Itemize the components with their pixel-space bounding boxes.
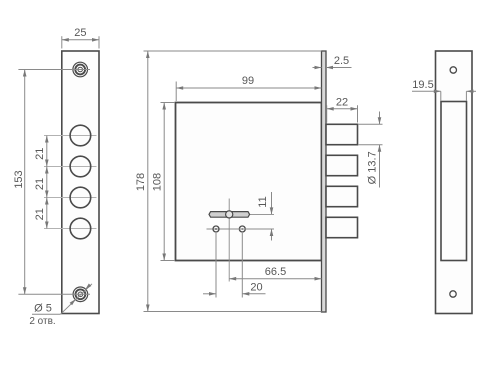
dimension 25 extension lines xyxy=(62,36,99,48)
hole 4 circle xyxy=(70,218,91,239)
dimension 19.5 line xyxy=(412,90,476,94)
svg-text:20: 20 xyxy=(250,281,262,293)
svg-text:178: 178 xyxy=(135,173,147,191)
bolt 2 xyxy=(326,155,358,175)
svg-text:11: 11 xyxy=(257,196,269,207)
dimension 2.5 left arrow xyxy=(313,66,322,70)
left faceplate outline xyxy=(62,51,99,314)
dimension 13.7 extension lines xyxy=(359,124,383,145)
faceplate strip edge-on xyxy=(322,51,327,312)
svg-text:19.5: 19.5 xyxy=(412,79,433,91)
dimension 178 top extension line xyxy=(144,50,322,52)
bolt 3 xyxy=(326,186,358,206)
dimension 153 extension lines xyxy=(18,70,90,295)
diameter 5 label underline xyxy=(32,313,61,315)
fixing hole left xyxy=(213,226,219,232)
bolt 1 xyxy=(326,124,358,144)
dimension 108 line xyxy=(162,103,166,261)
dimension 21 chain line xyxy=(45,136,49,229)
dimension 11 line xyxy=(270,192,274,241)
hole 1 circle xyxy=(70,125,91,146)
svg-text:25: 25 xyxy=(74,27,86,39)
fixing hole right xyxy=(239,226,245,232)
dimension 19.5 extension lines xyxy=(441,91,467,100)
dimension 22 line xyxy=(327,107,358,111)
svg-text:21: 21 xyxy=(34,208,46,220)
svg-text:Ø 5: Ø 5 xyxy=(34,303,52,315)
lock body outline xyxy=(176,103,322,261)
hole 3 center line xyxy=(44,197,97,199)
dimension 153 line xyxy=(23,70,27,295)
strike plate outline xyxy=(436,51,473,314)
spindle horizontal center line xyxy=(248,213,274,215)
strike plate bottom hole xyxy=(450,291,456,297)
dimension 22 extension lines xyxy=(327,105,358,122)
dimension 99 line xyxy=(176,86,321,90)
fixing holes center line xyxy=(207,228,275,230)
dimension 178 line xyxy=(146,51,150,312)
dimension 2.5 right arrow xyxy=(326,66,352,70)
spindle bar xyxy=(209,212,250,218)
svg-text:21: 21 xyxy=(34,148,46,160)
dimension 11 extension line xyxy=(229,228,274,230)
hole 2 center line xyxy=(44,166,97,168)
hole 3 circle xyxy=(70,187,91,208)
hole 1 center line xyxy=(44,135,97,137)
dimension 20 extension lines xyxy=(216,233,242,298)
diameter 5 leader line xyxy=(61,284,93,315)
bolt 4 xyxy=(326,217,358,237)
svg-text:2 отв.: 2 отв. xyxy=(29,316,55,327)
svg-text:108: 108 xyxy=(151,173,163,191)
svg-text:153: 153 xyxy=(13,170,25,188)
svg-text:2.5: 2.5 xyxy=(334,55,349,67)
strike plate slot xyxy=(441,102,467,261)
svg-text:99: 99 xyxy=(242,75,254,87)
svg-text:66.5: 66.5 xyxy=(265,266,286,278)
dimension 99 extension line xyxy=(175,82,177,102)
dimension 108 top extension line xyxy=(161,102,176,104)
svg-text:21: 21 xyxy=(34,178,46,190)
dimension 20 line xyxy=(203,292,266,296)
svg-text:Ø 13.7: Ø 13.7 xyxy=(367,151,379,184)
strike plate top hole xyxy=(450,67,456,73)
hole 4 center line xyxy=(44,228,97,230)
bottom screw hole xyxy=(73,287,88,302)
spindle vertical center line xyxy=(228,199,230,282)
dimension 178 bottom extension line xyxy=(144,311,322,313)
dimension 108 bottom extension line xyxy=(161,260,176,262)
svg-text:22: 22 xyxy=(336,96,348,108)
spindle hub circle xyxy=(226,211,233,218)
top screw hole xyxy=(73,62,88,77)
hole 2 circle xyxy=(70,156,91,177)
dimension 13.7 line xyxy=(378,112,382,188)
dimension 25 line xyxy=(62,38,99,42)
dimension 66.5 line xyxy=(229,277,321,281)
